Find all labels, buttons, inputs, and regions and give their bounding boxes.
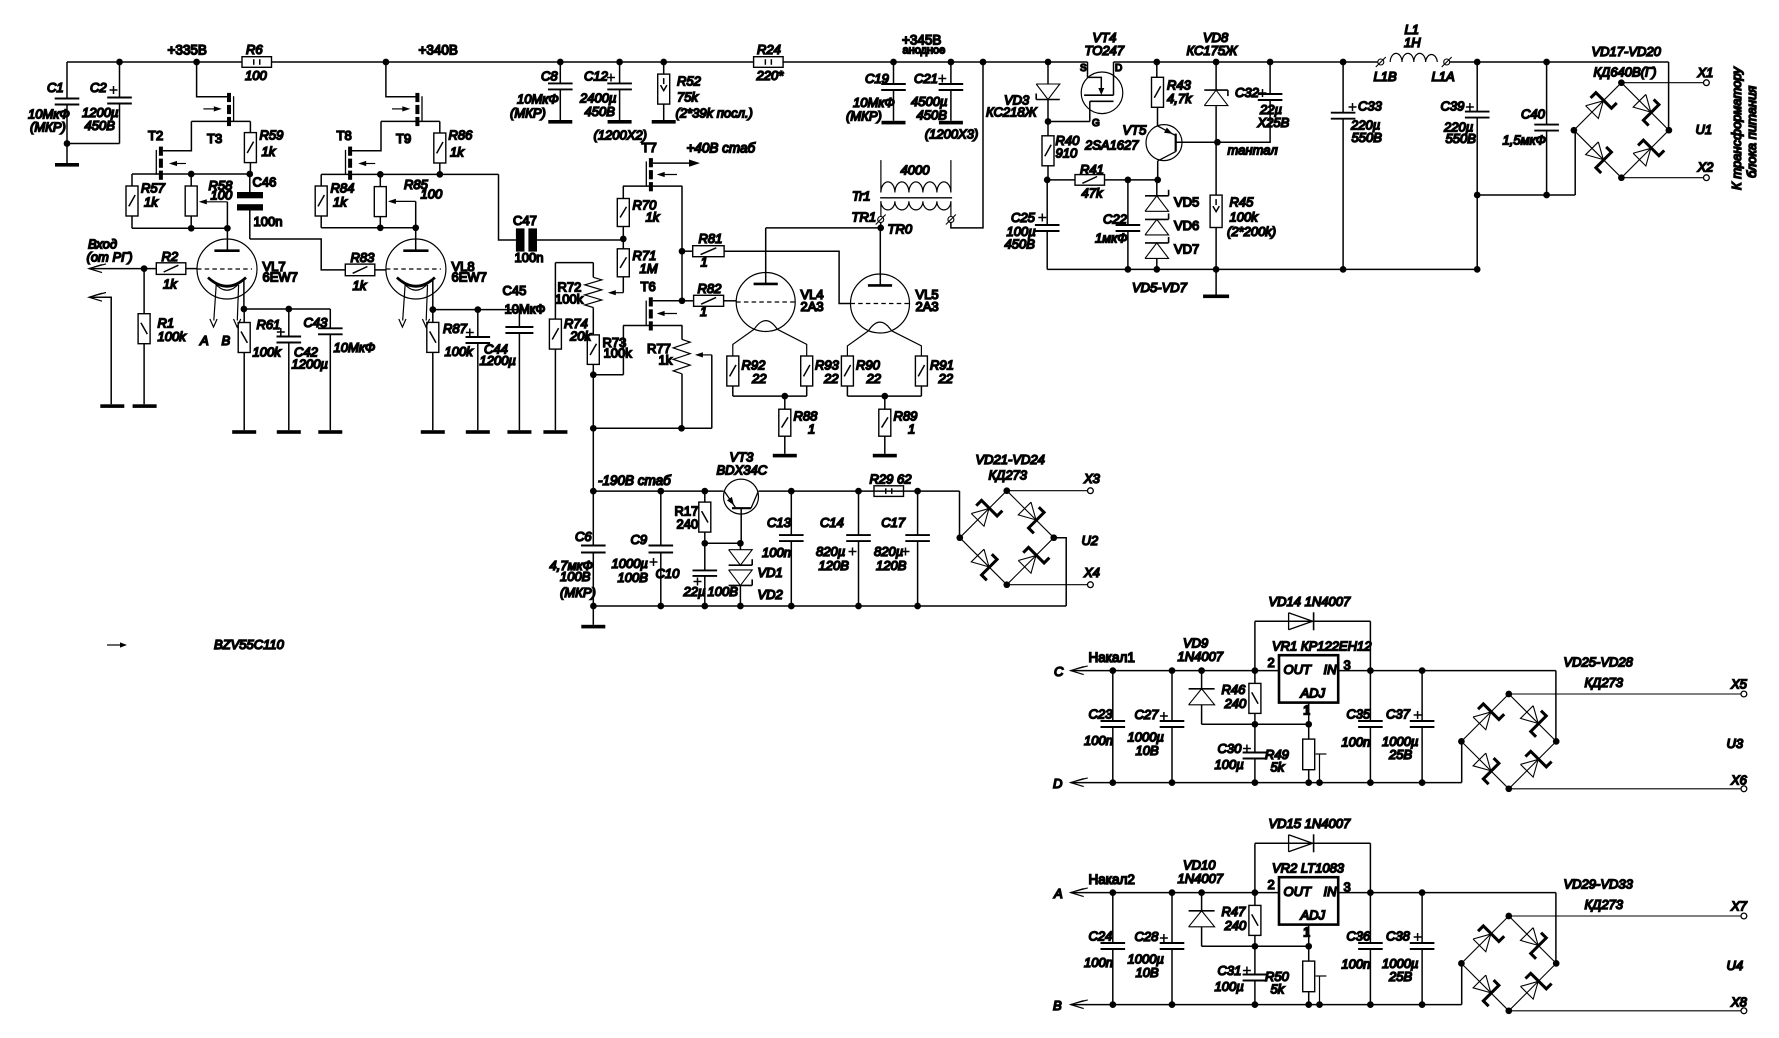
svg-text:(МКР): (МКР) [30,120,66,135]
wire cathode junction line [244,308,330,310]
svg-text:C47: C47 [513,213,537,228]
svg-text:C30: C30 [1218,741,1243,756]
svg-text:TR1: TR1 [852,210,877,225]
wire T3 drain from rail [193,59,200,66]
svg-text:100n: 100n [1341,735,1370,750]
wire X7 [1509,915,1741,917]
svg-text:C: C [1054,664,1064,679]
svg-text:VR1 КР122ЕН12: VR1 КР122ЕН12 [1272,638,1372,653]
svg-text:(1200X2): (1200X2) [594,128,647,143]
svg-text:100k: 100k [1230,210,1260,225]
wire gate junction line y174 [132,173,250,175]
wire VT3 base down [740,508,742,543]
capacitor C13 100n [790,491,792,535]
wire U2 right to bottom rail [1054,538,1066,606]
svg-text:C24: C24 [1089,928,1113,943]
svg-text:25В: 25В [1388,747,1412,762]
svg-text:450В: 450В [917,108,948,123]
svg-text:R24: R24 [757,42,781,57]
svg-text:(МКР): (МКР) [560,585,596,600]
wire VL7 anode lead [226,228,228,250]
ground input [100,404,124,408]
svg-text:240: 240 [1224,918,1247,933]
svg-text:R82: R82 [698,281,723,296]
tube VL7 6EW7 [197,239,257,299]
wire -190V rail left [593,490,723,492]
potentiometer R77 1k [681,326,683,340]
svg-text:100n: 100n [515,250,544,265]
svg-text:C37: C37 [1386,707,1411,722]
svg-text:КД640В(Г): КД640В(Г) [1594,65,1657,80]
wire T6 bottom line [623,325,682,327]
svg-text:VR2 LT1083: VR2 LT1083 [1272,860,1345,875]
capacitor C40 1.5uF [1543,59,1550,66]
resistor R93 22 [801,356,813,386]
svg-text:+40В стаб: +40В стаб [687,141,756,156]
ground C1 [55,163,79,167]
wire y195 line to bridge [1477,194,1575,196]
svg-text:1k: 1k [144,195,159,210]
wire VD8 line down to R45 [1215,142,1217,195]
svg-text:1,5мкФ: 1,5мкФ [1503,133,1546,148]
svg-text:BDX34C: BDX34C [717,463,768,478]
ground R89 [873,454,897,458]
svg-text:R84: R84 [331,181,355,196]
ground C45 [507,430,531,434]
svg-text:IN: IN [1324,884,1338,899]
svg-text:R45: R45 [1230,195,1255,210]
svg-text:U1: U1 [1696,122,1713,137]
capacitor C38 1000u 25V [1421,893,1423,943]
wire VL5 filament leads [847,331,868,356]
wire VL5 cathode junction [847,395,921,397]
ground C19 [882,121,906,125]
resistor R88 1 [784,396,786,409]
svg-text:Tr1: Tr1 [852,189,871,204]
svg-text:C28: C28 [1135,929,1160,944]
svg-text:T9: T9 [396,131,411,146]
svg-text:1M: 1M [640,261,658,276]
svg-text:X7: X7 [1730,898,1748,913]
node R17 bottom [701,540,708,547]
svg-text:120В: 120В [819,558,850,573]
node R40 bottom [1044,177,1051,184]
svg-text:IN: IN [1324,662,1338,677]
resistor R47 240 [1254,893,1256,906]
node C39 y195 [1474,192,1481,199]
svg-text:550В: 550В [1446,131,1477,146]
transistor VT3 BDX34C [724,479,759,514]
svg-text:R47: R47 [1222,904,1247,919]
ground R87 [421,430,445,434]
capacitor C47 100n [499,174,516,240]
capacitor C6 4.7uF [592,491,594,545]
capacitor C37 1000u 25V [1421,671,1423,721]
node R73 bottom [590,371,597,378]
svg-text:100: 100 [245,68,267,83]
wire -190V to U2 left corner [959,491,961,539]
svg-text:4,7k: 4,7k [1167,91,1193,106]
capacitor C33 220u 550V [1340,59,1347,66]
resistor R17 240 [704,491,706,502]
svg-text:C32: C32 [1235,85,1260,100]
svg-text:C6: C6 [575,529,592,544]
ground R1 [133,404,157,408]
capacitor C46 100n [249,174,251,192]
resistor R52 75k [660,59,667,66]
svg-text:VD25-VD28: VD25-VD28 [1564,655,1634,670]
svg-text:450В: 450В [585,104,616,119]
capacitor C28 1000u [1171,893,1173,943]
wire rail segment R6 to R24 [271,61,754,63]
svg-text:(МКР): (МКР) [846,108,882,123]
svg-text:X25В: X25В [1257,115,1290,130]
label BZV55C110 legend [107,644,121,646]
svg-text:2A3: 2A3 [801,299,824,314]
svg-text:R61: R61 [257,317,281,332]
wire T9 drain from rail [383,59,390,66]
svg-text:BZV55C110: BZV55C110 [214,637,285,652]
svg-text:КД273: КД273 [1585,897,1624,912]
svg-text:R2: R2 [162,249,179,264]
node VT5 collector [1154,177,1161,184]
svg-text:22µ: 22µ [683,584,706,599]
svg-text:U2: U2 [1082,533,1099,548]
svg-text:C43: C43 [304,315,329,330]
diode VD14 1N4007 [1288,613,1290,630]
svg-text:22: 22 [823,371,839,386]
svg-text:C12: C12 [584,69,609,84]
capacitor C44 1200u [477,310,479,337]
wire VD14 bypass riser [1254,621,1256,670]
node U3 corners [1505,691,1512,698]
inductor L1 1H [1378,59,1384,65]
svg-text:240: 240 [1224,696,1247,711]
svg-text:U3: U3 [1727,736,1744,751]
regulator VR2 [1279,877,1338,924]
wire VL8 anode lead [415,228,417,251]
svg-text:C36: C36 [1346,928,1371,943]
capacitor C23 100n [1112,671,1114,721]
tube VL4 2A3 [736,273,795,332]
resistor R49 5k [1308,724,1310,739]
resistor R81 1 [682,250,693,252]
resistor R2 1k [156,263,186,275]
svg-text:T2: T2 [148,128,163,143]
svg-text:VT5: VT5 [1123,123,1148,138]
resistor R24 220 [754,57,784,68]
capacitor C31 100u [1254,946,1256,974]
svg-text:X1: X1 [1697,65,1714,80]
svg-text:C21: C21 [914,71,938,86]
resistor R45 100k [1210,195,1222,227]
svg-text:C33: C33 [1358,99,1383,114]
zener VD2 [729,584,753,586]
ground C43 [318,430,342,434]
node U1 corners [1618,79,1625,86]
capacitor C32 22u tantalum [1267,59,1274,66]
svg-text:OUT: OUT [1284,884,1313,899]
svg-text:R83: R83 [351,250,376,265]
svg-text:ADJ: ADJ [1300,686,1326,701]
svg-text:R87: R87 [443,321,468,336]
svg-text:220*: 220* [756,68,785,83]
zener stack VD7 [1145,242,1169,244]
wire X4 [1007,584,1088,586]
svg-text:5k: 5k [1271,982,1286,997]
svg-text:R59: R59 [260,128,284,143]
capacitor C30 100u [1254,724,1256,752]
svg-text:820µ: 820µ [874,544,903,559]
resistor R50 5k [1308,946,1310,961]
svg-text:(2*200k): (2*200k) [1227,224,1276,239]
wire T6 drain [653,300,682,302]
resistor R70 1k [622,186,624,198]
wire T3 source line [191,120,250,122]
svg-text:C17: C17 [881,515,906,530]
resistor R29 62 [874,486,904,497]
resistor R86 1k [439,121,441,133]
svg-text:VD21-VD24: VD21-VD24 [976,452,1045,467]
svg-text:К трансформатору: К трансформатору [1729,66,1744,190]
svg-text:R46: R46 [1222,682,1247,697]
transistor T9 [415,93,419,102]
transistor T6 [649,297,653,306]
capacitor C9 1000u 100V [660,491,662,545]
node C22 top [1125,177,1132,184]
capacitor C14 820u 120V [858,491,860,535]
svg-text:(от РГ): (от РГ) [87,250,133,265]
resistor R71 1M [622,239,624,249]
svg-text:100k: 100k [158,329,188,344]
svg-text:VD5: VD5 [1174,195,1199,210]
wire D return bottom line [1071,779,1084,787]
svg-text:КС175Ж: КС175Ж [1187,43,1239,58]
svg-text:100k: 100k [555,292,584,307]
wire bottom junction line VL8 [321,227,416,229]
svg-text:КД273: КД273 [989,468,1028,483]
diode VD9 1N4007 [1201,671,1203,689]
resistor R82 1 [682,300,694,302]
svg-text:КС218Ж: КС218Ж [986,105,1038,120]
transistor VT4 TO247 [1081,72,1123,114]
wire T9 source line [381,120,440,122]
tube VL5 2A3 [851,274,910,333]
resistor R92 22 [727,356,739,386]
ground C44 [466,430,490,434]
svg-text:75k: 75k [677,90,699,105]
wire x682 vertical [681,186,683,301]
svg-text:240: 240 [677,517,699,532]
resistor R40 910 [1047,122,1049,136]
ground C42 [277,430,301,434]
diode VD10 1N4007 [1201,893,1203,911]
svg-text:ADJ: ADJ [1300,908,1326,923]
capacitor C25 100u 450V [1046,180,1048,225]
svg-text:100n: 100n [762,545,791,560]
wire VR2 ADJ [1308,925,1310,947]
node U4 corners [1505,913,1512,920]
resistor R89 1 [884,396,886,409]
zener stack VD5 [1156,180,1158,196]
svg-text:R6: R6 [246,42,263,57]
svg-text:22: 22 [751,371,767,386]
svg-text:C19: C19 [865,71,889,86]
node R70-R71-C47 [620,236,627,243]
svg-text:C31: C31 [1218,963,1242,978]
wire -190V rail right [759,490,960,492]
svg-text:1200µ: 1200µ [292,357,328,372]
capacitor C35 100n [1369,671,1371,721]
svg-text:(1200X3): (1200X3) [925,127,978,142]
svg-text:100n: 100n [1084,733,1113,748]
svg-text:R57: R57 [141,181,166,196]
svg-text:VD7: VD7 [1174,242,1199,257]
ground R74 [543,430,567,434]
wire VL4 anode [765,228,767,284]
svg-text:100n: 100n [254,214,283,229]
bridge U4 [1461,963,1463,1004]
svg-text:2SA1627: 2SA1627 [1084,138,1139,153]
capacitor C24 100n [1112,893,1114,943]
svg-text:КД273: КД273 [1585,675,1624,690]
svg-text:D: D [1115,63,1122,74]
wire T9 to T8 drain [352,121,381,150]
svg-text:C22: C22 [1103,212,1128,227]
svg-text:VD15 1N4007: VD15 1N4007 [1269,816,1351,831]
svg-text:T8: T8 [337,128,352,143]
wire +40V output arrow [653,162,692,164]
svg-text:L1B: L1B [1374,69,1397,84]
capacitor C45 10uF [518,310,520,327]
svg-text:C23: C23 [1089,706,1114,721]
resistor R73 100k [592,308,594,335]
wire top +335V rail left segment [67,61,242,63]
svg-text:10МкФ: 10МкФ [505,302,546,317]
svg-text:2: 2 [1268,655,1275,670]
svg-text:10МкФ: 10МкФ [517,92,559,107]
svg-text:блока питания: блока питания [1744,86,1759,178]
wire R71 to R72 wiper [610,292,624,294]
svg-text:TO247: TO247 [1085,43,1125,58]
transistor T7 regulator [649,158,653,167]
svg-text:100µ: 100µ [1215,979,1244,994]
svg-text:OUT: OUT [1284,662,1313,677]
resistor R59 1k [249,121,251,132]
potentiometer R72 100k [585,277,602,307]
svg-text:X3: X3 [1083,471,1101,486]
capacitor C36 100n [1369,893,1371,943]
potentiometer R85 100 [379,174,381,186]
svg-text:D: D [1053,776,1062,791]
capacitor C39 220u 550V [1474,59,1481,66]
transistor T8 [348,147,352,156]
svg-text:100В: 100В [560,569,591,584]
capacitor C21 4500u [948,59,955,66]
svg-text:S: S [1080,63,1087,74]
resistor R61 100k [243,309,245,323]
wire X3 [1007,490,1088,492]
capacitor C12 2400u [616,59,623,66]
svg-text:100k: 100k [604,346,633,361]
wire VR1 IN line [1338,670,1556,672]
svg-text:1k: 1k [262,144,277,159]
svg-text:(2*39k посл.): (2*39k посл.) [676,106,753,121]
svg-text:1N4007: 1N4007 [1178,871,1224,886]
svg-text:X4: X4 [1083,565,1100,580]
svg-text:1200µ: 1200µ [480,353,516,368]
svg-text:10МкФ: 10МкФ [334,340,376,355]
svg-text:R29 62: R29 62 [870,472,913,487]
wire VL8 cathode [432,280,434,310]
zener VD8 KS175Zh [1213,59,1220,66]
svg-text:тантал: тантал [1228,143,1279,158]
transformer Tr1 secondary [881,201,951,210]
svg-text:C35: C35 [1346,706,1371,721]
potentiometer R58 100 [190,174,192,186]
wire secondary left to VL4 anode [880,223,882,228]
wire secondary right to +345V rail [951,62,983,228]
transistor T3 [227,93,231,102]
svg-text:X5: X5 [1730,676,1748,691]
svg-text:C39: C39 [1441,99,1465,114]
svg-text:1: 1 [908,422,915,437]
capacitor C1 [66,62,68,99]
wire X8 [1509,1010,1741,1012]
transformer Tr1 primary [880,160,882,192]
svg-text:C46: C46 [253,175,277,190]
svg-text:100µ: 100µ [1215,757,1244,772]
svg-text:C14: C14 [820,515,844,530]
svg-text:VD17-VD20: VD17-VD20 [1592,44,1662,59]
node VD3 gate [1045,118,1052,125]
wire A feed top line [1071,889,1084,897]
resistor R87 100k [432,310,434,323]
svg-text:1000µ: 1000µ [612,556,648,571]
svg-text:1k: 1k [333,195,348,210]
transistor VT5 2SA1627 [1146,125,1182,161]
ground C21 [939,121,963,125]
svg-text:C45: C45 [503,283,527,298]
svg-text:X8: X8 [1730,994,1748,1009]
bridge U3 [1461,741,1463,782]
svg-text:A: A [1053,886,1063,901]
svg-text:1k: 1k [646,210,661,225]
wire VL4 cathode junction [733,395,807,397]
wire T3 to T2 drain [163,121,191,150]
svg-text:R41: R41 [1080,162,1104,177]
wire VD15 bypass riser [1254,843,1256,892]
wire input node [89,265,102,273]
wire X2 [1621,177,1703,179]
wire VL8 cathode junction line [433,309,520,311]
svg-text:(МКР): (МКР) [510,106,546,121]
node VT5 base [1214,139,1221,146]
wire C feed top line [1071,667,1084,675]
wire X5 [1509,693,1741,695]
svg-text:R86: R86 [449,128,474,143]
wire VR2 IN line [1338,892,1556,894]
svg-text:VD14 1N4007: VD14 1N4007 [1269,594,1351,609]
wire B return bottom line [1071,1001,1084,1009]
resistor R83 1k [345,264,375,276]
ground C6 [581,625,605,629]
svg-text:C2: C2 [90,80,107,95]
svg-text:100: 100 [211,188,233,203]
svg-text:VD2: VD2 [758,587,784,602]
svg-text:T7: T7 [642,140,657,155]
svg-text:VD6: VD6 [1174,218,1199,233]
